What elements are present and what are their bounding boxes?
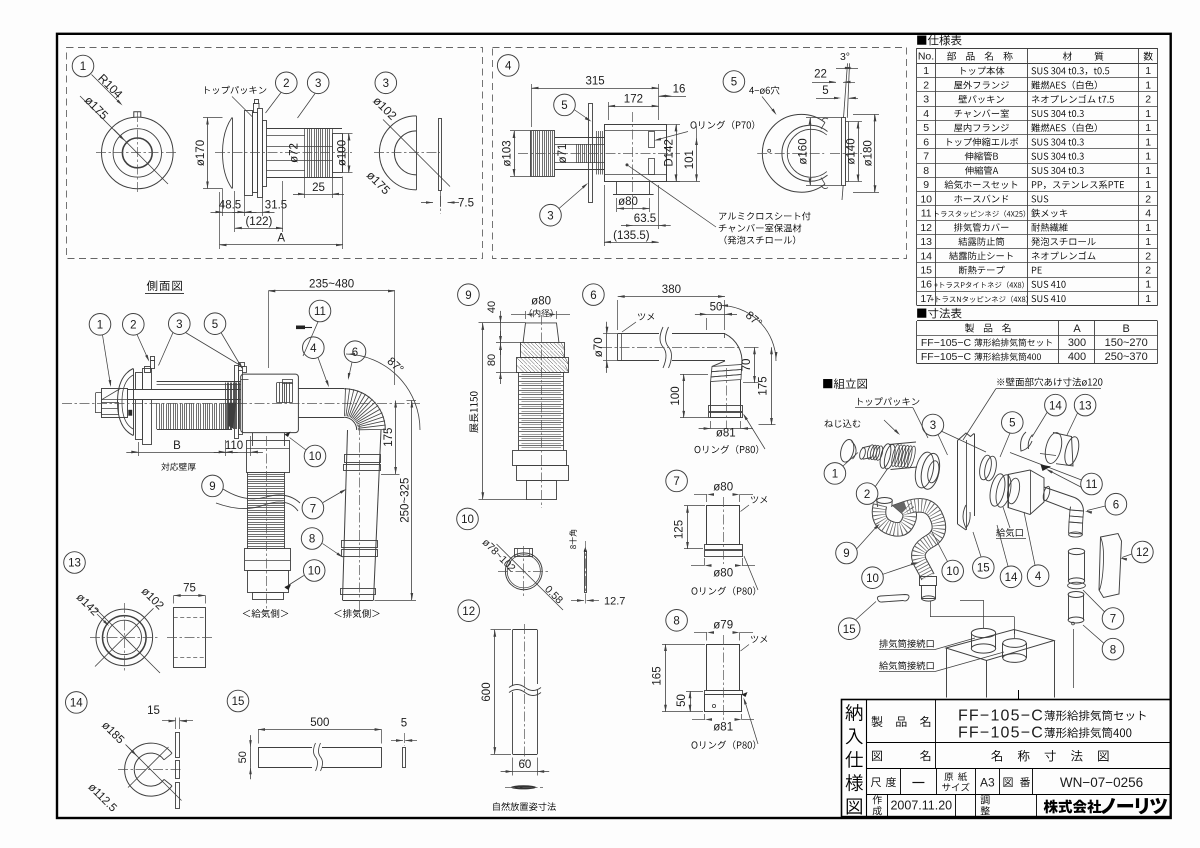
balloon 10 upper leader xyxy=(304,445,326,467)
svg-text:9: 9 xyxy=(923,179,929,191)
svg-text:11: 11 xyxy=(1086,479,1098,491)
svg-text:250~370: 250~370 xyxy=(1105,351,1148,363)
balloon 9 assembly xyxy=(836,542,858,564)
svg-text:175: 175 xyxy=(758,376,770,395)
strap 15 near wall xyxy=(963,505,970,528)
dimension B and wall note xyxy=(138,452,225,454)
svg-text:8: 8 xyxy=(1110,644,1116,656)
svg-text:10: 10 xyxy=(308,566,321,578)
svg-text:600: 600 xyxy=(481,682,493,701)
dimension 500 xyxy=(258,729,382,731)
svg-text:63.5: 63.5 xyxy=(634,213,656,225)
exhaust pipe vertical xyxy=(343,430,348,600)
svg-text:11: 11 xyxy=(314,306,326,318)
svg-text:10: 10 xyxy=(461,514,474,526)
svg-text:12: 12 xyxy=(1136,547,1149,559)
svg-text:ø80: ø80 xyxy=(618,196,638,208)
svg-text:2: 2 xyxy=(923,80,929,92)
svg-text:7: 7 xyxy=(1110,614,1116,626)
balloon 8 assembly xyxy=(1102,638,1124,660)
balloon 7 assembly xyxy=(1102,608,1124,630)
svg-text:1: 1 xyxy=(1145,236,1151,248)
intake elbow down from chamber xyxy=(252,433,254,446)
svg-text:1: 1 xyxy=(1145,80,1151,92)
svg-text:10: 10 xyxy=(920,193,932,205)
tsume label elbow xyxy=(638,313,654,320)
dimension 175 elbow xyxy=(771,347,773,425)
svg-text:125: 125 xyxy=(674,520,686,539)
corrugated outer pipe below tube xyxy=(156,403,158,429)
svg-text:6: 6 xyxy=(590,290,596,302)
svg-text:172: 172 xyxy=(624,94,643,106)
svg-text:3: 3 xyxy=(547,210,553,222)
assembly title xyxy=(823,378,867,389)
svg-text:1: 1 xyxy=(1145,293,1151,305)
ring 13 side view xyxy=(174,608,206,668)
svg-text:1: 1 xyxy=(923,65,929,77)
leader R104 xyxy=(92,75,121,104)
svg-text:2: 2 xyxy=(130,320,136,332)
side view title xyxy=(147,280,182,290)
dimension 50 xyxy=(707,314,725,316)
horizontal pipe to elbow 6 xyxy=(1044,487,1075,498)
svg-text:2: 2 xyxy=(283,78,289,90)
balloon 9 detail xyxy=(458,284,480,306)
svg-text:14: 14 xyxy=(70,698,83,710)
balloon 15 assembly mid xyxy=(973,557,995,579)
size table grid xyxy=(917,320,1158,322)
svg-text:1: 1 xyxy=(1145,136,1151,148)
chamber section view xyxy=(531,131,555,177)
balloon 13 detail xyxy=(64,552,86,574)
dimension 101 xyxy=(667,181,701,183)
dense corrugation near flange xyxy=(225,383,227,430)
svg-text:B: B xyxy=(1123,323,1130,335)
balloon 6 assembly xyxy=(1105,493,1127,515)
balloon 3 assembly xyxy=(922,414,944,436)
wall packing side strip xyxy=(439,119,442,191)
balloon 12 assembly xyxy=(1132,541,1154,563)
svg-text:FF−105−C: FF−105−C xyxy=(958,725,1044,742)
svg-text:300: 300 xyxy=(1068,337,1086,349)
part 8 exploded xyxy=(1068,592,1084,598)
dimension 50 tape xyxy=(250,747,252,767)
clamp marks on intake pipe xyxy=(285,432,291,438)
hose set top tube xyxy=(523,323,559,343)
svg-text:ø140: ø140 xyxy=(846,138,858,164)
svg-text:15: 15 xyxy=(843,624,856,636)
svg-text:3: 3 xyxy=(315,78,321,90)
balloon 5 right xyxy=(723,71,745,93)
svg-text:B: B xyxy=(173,440,181,452)
svg-text:15: 15 xyxy=(977,563,990,575)
balloon 8 leader xyxy=(301,528,323,550)
dimension 40 xyxy=(500,323,502,343)
svg-text:ø71: ø71 xyxy=(557,144,569,164)
o-ring label 7 xyxy=(692,586,756,595)
top body flange curve xyxy=(118,369,134,436)
dimension dia81 elbow xyxy=(711,428,741,430)
dimension 100 elbow xyxy=(683,374,685,418)
dimension A xyxy=(220,244,344,246)
svg-text:60: 60 xyxy=(519,759,532,771)
svg-text:ø79: ø79 xyxy=(713,620,733,632)
dimension 380 xyxy=(618,296,725,298)
svg-text:15: 15 xyxy=(920,265,932,277)
natural posture label xyxy=(493,802,556,811)
svg-text:ø160: ø160 xyxy=(798,138,810,164)
dimension dia180 xyxy=(853,114,879,116)
svg-text:(135.5): (135.5) xyxy=(613,230,650,242)
leader from part 8 down to boiler xyxy=(1073,629,1075,688)
c-shaped sheet front xyxy=(125,743,172,796)
wall packing plates side view xyxy=(136,373,143,390)
top body left cap xyxy=(102,389,128,418)
natural rest posture mark xyxy=(511,785,536,789)
svg-text:4: 4 xyxy=(1145,208,1151,220)
indoor flange plate side xyxy=(235,366,239,439)
svg-text:15: 15 xyxy=(232,696,245,708)
87 degree arc dimension xyxy=(346,354,420,430)
ring 13 piece xyxy=(1042,431,1064,465)
tsume 7 xyxy=(751,496,767,503)
svg-text:FF−105−C: FF−105−C xyxy=(921,351,972,363)
size table text xyxy=(965,323,1010,332)
svg-text:9: 9 xyxy=(465,290,471,302)
indoor flange front view (half rings) xyxy=(762,114,825,192)
screw icon for balloon 11 xyxy=(296,326,305,330)
hose 9 wavy exploded xyxy=(879,505,939,577)
balloon 14 assembly lower xyxy=(1000,566,1022,588)
flange top bracket xyxy=(145,367,151,373)
svg-text:3: 3 xyxy=(923,94,929,106)
svg-text:4: 4 xyxy=(505,61,512,73)
svg-text:ø81: ø81 xyxy=(716,428,736,440)
dimension 172 xyxy=(608,106,659,108)
size table label xyxy=(917,308,961,319)
svg-text:ø80: ø80 xyxy=(531,296,551,308)
dimension dia103 xyxy=(510,130,530,132)
balloon 13 assembly xyxy=(1074,394,1096,416)
svg-text:25: 25 xyxy=(312,182,325,194)
svg-text:1: 1 xyxy=(80,61,86,73)
svg-text:40: 40 xyxy=(486,301,498,313)
dimension length 1150 xyxy=(482,323,484,499)
balloon 3 wall packing xyxy=(375,72,397,94)
hose 9 end fittings xyxy=(877,498,893,504)
svg-text:380: 380 xyxy=(662,284,681,296)
title block scale row xyxy=(871,778,881,788)
svg-text:ø70: ø70 xyxy=(593,337,605,357)
svg-text:175: 175 xyxy=(383,428,395,447)
svg-text:3°: 3° xyxy=(840,51,850,63)
dimension 48.5 xyxy=(222,189,224,217)
dimension 70 elbow xyxy=(744,347,759,349)
spec table label xyxy=(917,35,961,46)
balloon 14 assembly upper xyxy=(1045,394,1067,416)
svg-text:22: 22 xyxy=(814,69,827,81)
svg-text:9: 9 xyxy=(209,481,215,493)
intake port label xyxy=(996,528,1022,537)
balloon 8 detail xyxy=(666,610,688,632)
dimension D142 xyxy=(667,124,681,126)
svg-text:9: 9 xyxy=(843,548,849,560)
svg-text:8: 8 xyxy=(309,534,315,546)
svg-text:(122): (122) xyxy=(245,216,272,228)
svg-text:1: 1 xyxy=(1145,108,1151,120)
spec table grid xyxy=(917,48,1158,50)
svg-text:8: 8 xyxy=(923,165,929,177)
noritz company logo xyxy=(1044,800,1102,814)
svg-text:2: 2 xyxy=(1145,265,1151,277)
screw-in label xyxy=(825,419,861,427)
dimension 60 xyxy=(513,771,538,773)
strap 15 bottom piece xyxy=(877,595,909,603)
top body front view circles xyxy=(102,117,174,189)
intake corrugated pipe vertical xyxy=(248,472,285,474)
svg-text:12.7: 12.7 xyxy=(604,596,625,608)
pipe 7 xyxy=(707,506,740,545)
dimension dia79 top 8 xyxy=(707,631,714,634)
main horizontal tube xyxy=(128,389,241,391)
hose lower collar xyxy=(513,451,567,466)
intake connection label xyxy=(879,661,933,670)
svg-text:50: 50 xyxy=(237,751,249,763)
svg-text:5: 5 xyxy=(212,319,218,331)
dimension 16 xyxy=(659,96,686,98)
svg-text:WN−07−0256: WN−07−0256 xyxy=(1060,775,1143,790)
svg-text:14: 14 xyxy=(920,250,932,262)
svg-text:14: 14 xyxy=(1005,572,1018,584)
svg-text:ø170: ø170 xyxy=(195,140,207,166)
balloon 10 assembly left xyxy=(862,567,884,589)
hose corrugation xyxy=(519,372,564,374)
exhaust connection label xyxy=(879,639,933,648)
svg-text:1: 1 xyxy=(1145,165,1151,177)
svg-text:5: 5 xyxy=(401,718,407,730)
svg-text:110: 110 xyxy=(225,440,243,452)
balloon 4 assembly lower xyxy=(1027,565,1049,587)
balloon 14 detail xyxy=(66,692,88,714)
dimension (135.5) xyxy=(604,242,659,244)
svg-text:100: 100 xyxy=(670,386,682,405)
svg-text:150~270: 150~270 xyxy=(1105,337,1148,349)
svg-text:1: 1 xyxy=(1145,122,1151,134)
svg-text:FF−105−C: FF−105−C xyxy=(921,337,972,349)
dimension 12.7 xyxy=(577,599,584,602)
o-ring label 8 xyxy=(692,740,756,749)
svg-text:12: 12 xyxy=(920,222,932,234)
part 7 exploded xyxy=(1068,548,1084,554)
dimension 63.5 xyxy=(633,225,659,227)
svg-text:80: 80 xyxy=(486,354,498,366)
title block drawing name row xyxy=(872,751,882,761)
svg-text:8: 8 xyxy=(673,616,679,628)
svg-text:101: 101 xyxy=(684,150,696,169)
balloon 3 leader lower xyxy=(540,204,562,226)
svg-text:ø72: ø72 xyxy=(289,143,301,163)
dimension 50 detail8 xyxy=(690,691,692,712)
svg-text:500: 500 xyxy=(310,717,329,729)
top packing label assembly xyxy=(858,397,919,405)
dimension 31.5 xyxy=(262,186,264,216)
balloon 10 lower leader xyxy=(303,560,325,582)
dimension 125 xyxy=(687,506,689,549)
svg-text:13: 13 xyxy=(1079,400,1092,412)
dimension dia80 bottom 7 xyxy=(705,564,712,567)
hose band circle xyxy=(505,553,542,590)
chamber insulation note xyxy=(719,212,810,220)
svg-text:10: 10 xyxy=(946,566,959,578)
svg-text:14: 14 xyxy=(1049,400,1062,412)
svg-text:3: 3 xyxy=(383,78,389,90)
svg-text:5: 5 xyxy=(1009,418,1015,430)
svg-text:6: 6 xyxy=(1113,499,1119,511)
detail boundary dashed box right xyxy=(493,48,907,259)
svg-text:1: 1 xyxy=(1145,279,1151,291)
svg-text:13: 13 xyxy=(68,558,81,570)
hose band side view xyxy=(585,552,587,593)
svg-text:A: A xyxy=(1073,323,1081,335)
wall hole note xyxy=(997,378,1102,387)
top body side view xyxy=(223,118,233,189)
tape strip xyxy=(258,747,312,749)
balloon 1 (top-left detail) xyxy=(72,55,94,77)
balloon 15 detail xyxy=(227,690,249,712)
svg-text:D142: D142 xyxy=(664,139,676,167)
pipe 8 xyxy=(707,645,740,691)
balloon 6 detail xyxy=(583,284,605,306)
intake lower collar xyxy=(245,549,291,571)
svg-text:315: 315 xyxy=(586,76,605,88)
svg-text:16: 16 xyxy=(673,84,686,96)
balloon 12 detail xyxy=(458,600,480,622)
dimension 175 exhaust xyxy=(395,401,397,475)
svg-text:17: 17 xyxy=(920,293,932,305)
top body exploded xyxy=(859,447,867,460)
svg-text:2: 2 xyxy=(1145,94,1151,106)
cover 12 piece xyxy=(1099,534,1122,598)
tsume 8 xyxy=(751,636,767,643)
dimension 315 xyxy=(532,88,659,90)
balloon 7 leader xyxy=(302,497,324,519)
svg-text:250~325: 250~325 xyxy=(399,478,411,523)
svg-text:4: 4 xyxy=(310,343,317,355)
svg-text:7: 7 xyxy=(310,503,316,515)
dimension 75 xyxy=(174,595,206,597)
title block frame xyxy=(842,700,1171,817)
title block product name row xyxy=(871,716,882,727)
wall section piece xyxy=(958,433,975,441)
balloon 1 assembly xyxy=(824,463,846,485)
title block vertical label 納入仕様図 xyxy=(845,704,862,721)
dimension 25 xyxy=(304,178,306,199)
svg-text:7: 7 xyxy=(673,476,679,488)
dimension dia170 xyxy=(203,117,223,119)
svg-text:2007.11.20: 2007.11.20 xyxy=(890,799,952,813)
dimension 600 xyxy=(494,630,496,754)
svg-text:5: 5 xyxy=(822,85,828,97)
balloon 4 xyxy=(497,55,519,77)
wall packing behind wall xyxy=(978,454,994,481)
svg-text:50: 50 xyxy=(676,694,688,707)
svg-text:10: 10 xyxy=(866,573,879,585)
svg-text:1: 1 xyxy=(832,469,838,481)
balloon 7 detail xyxy=(666,470,688,492)
leader dia175 xyxy=(80,96,123,139)
svg-text:6: 6 xyxy=(923,136,929,148)
svg-text:ø180: ø180 xyxy=(863,140,875,166)
boiler top box xyxy=(946,630,1054,661)
svg-text:A: A xyxy=(277,233,285,245)
balloon 10 assembly top xyxy=(942,560,964,582)
elbow horizontal tube xyxy=(618,333,659,335)
svg-text:ø81: ø81 xyxy=(713,722,733,734)
screw-in ring xyxy=(838,438,856,463)
svg-text:12: 12 xyxy=(462,606,475,618)
svg-text:11: 11 xyxy=(921,208,932,220)
tube from chamber to elbow xyxy=(298,388,344,390)
svg-text:15: 15 xyxy=(147,705,160,717)
sheet 14 piece upper xyxy=(1021,432,1032,451)
svg-text:1: 1 xyxy=(1145,65,1151,77)
connection leader lines xyxy=(930,601,932,617)
balloon 11 assembly xyxy=(1081,473,1103,495)
svg-text:ø100: ø100 xyxy=(337,140,349,166)
side view balloons row xyxy=(89,314,111,336)
svg-text:165: 165 xyxy=(652,666,664,685)
title block date row xyxy=(873,795,882,804)
svg-text:2: 2 xyxy=(1145,193,1151,205)
dimension (122) xyxy=(235,228,283,230)
exhaust elbow corrugated fan xyxy=(345,388,346,416)
svg-text:5: 5 xyxy=(731,77,737,89)
detail boundary dashed box left xyxy=(67,48,483,259)
chamber exploded xyxy=(987,472,1007,507)
svg-text:10: 10 xyxy=(309,451,322,463)
dimension dia160 xyxy=(806,117,841,119)
dimension dia80 top 7 xyxy=(707,493,714,496)
wall packing half rings xyxy=(379,116,416,190)
top packing label xyxy=(205,86,266,94)
svg-text:7.5: 7.5 xyxy=(458,198,474,210)
balloon 5 assembly xyxy=(1002,412,1024,434)
balloon 10 detail xyxy=(457,508,479,530)
svg-text:2: 2 xyxy=(1145,250,1151,262)
svg-text:13: 13 xyxy=(920,236,932,248)
dimension dia81 8 xyxy=(705,718,712,721)
svg-text:No.: No. xyxy=(918,51,934,63)
cover tube xyxy=(513,629,538,631)
dimension 80 xyxy=(500,343,502,372)
dimension dia80 xyxy=(617,208,650,210)
dimension dia100 xyxy=(343,133,353,135)
svg-text:ø103: ø103 xyxy=(502,140,514,166)
balloon 15 assembly bottom xyxy=(838,618,860,640)
svg-text:400: 400 xyxy=(1068,351,1086,363)
balloon 2 assembly xyxy=(856,483,878,505)
hole note 4-dia6 xyxy=(749,86,779,95)
svg-text:16: 16 xyxy=(920,279,932,291)
svg-text:1: 1 xyxy=(1145,151,1151,163)
side strip 14 xyxy=(176,733,180,758)
svg-text:1: 1 xyxy=(1145,179,1151,191)
ring 13 front view xyxy=(96,609,153,666)
svg-text:1: 1 xyxy=(97,320,103,332)
balloon 2 xyxy=(276,72,298,94)
o-ring label elbow xyxy=(695,445,759,454)
elbow bend and vertical pipe xyxy=(724,334,726,338)
